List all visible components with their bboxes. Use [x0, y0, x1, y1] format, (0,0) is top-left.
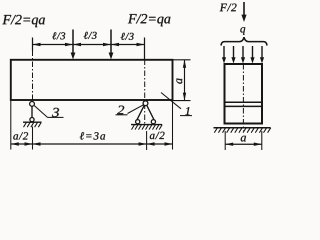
centerline support 2 [144, 60, 146, 125]
label a bottom [241, 136, 246, 142]
extension support 3 [32, 127, 34, 150]
label q [240, 27, 245, 35]
support 2: triangle legs [137, 105, 154, 120]
support 3: pin circle [30, 102, 35, 107]
label 1 [185, 107, 189, 115]
right side a-dimension of beam [173, 59, 191, 61]
beam (wall-beam element 1) [11, 60, 173, 100]
label 3 [52, 108, 59, 117]
distributed load arrows [224, 46, 262, 59]
support 2: pin circle [143, 101, 148, 106]
inner line lower [225, 105, 263, 107]
column centerline [242, 64, 244, 131]
dim arrowheads top [33, 43, 41, 46]
label a rotated [176, 78, 182, 83]
leader + label 1 [161, 93, 181, 109]
label l/3 first [52, 32, 65, 39]
support 2: ground line [131, 124, 162, 126]
label F/2=qa middle [128, 14, 170, 26]
force arrow F/2 [243, 2, 245, 16]
extension right beam edge [172, 101, 174, 150]
label 2 [117, 106, 124, 115]
load arrow F/2 right [110, 30, 112, 54]
load arrow F/2 left [72, 30, 74, 54]
support 3: rod [31, 106, 33, 117]
label l=3a [80, 132, 105, 139]
label a/2 left [13, 132, 28, 139]
support 3: lower hinge circle [30, 118, 34, 122]
column (side view of wall-beam) [225, 64, 263, 124]
label l/3 second [84, 32, 97, 39]
leader + label 3 [34, 106, 47, 118]
label l/3 third [121, 33, 134, 40]
extension left beam edge [10, 100, 12, 150]
bottom a dimension [224, 131, 226, 150]
label F/2 right [220, 4, 237, 12]
label a/2 right [150, 132, 165, 139]
tick left end [32, 38, 34, 51]
label F/2=qa left [2, 15, 44, 27]
bottom dimension line [11, 143, 173, 145]
bottom dim arrowheads [11, 142, 19, 145]
inner line upper [225, 101, 263, 103]
support 3: ground hatching [24, 122, 42, 127]
tick right end [144, 38, 146, 60]
support 3: ground line [23, 121, 42, 123]
top dimension line [33, 44, 145, 46]
extension support 2 [146, 131, 148, 150]
centerline support 3 [32, 51, 34, 102]
ground hatching right diagram [214, 128, 270, 133]
support 2: ground hatching [132, 125, 163, 130]
support 2: roller circles [136, 120, 140, 124]
ground line right diagram [214, 127, 271, 129]
brace over distributed load [221, 37, 267, 45]
leader + label 2 [128, 105, 144, 114]
